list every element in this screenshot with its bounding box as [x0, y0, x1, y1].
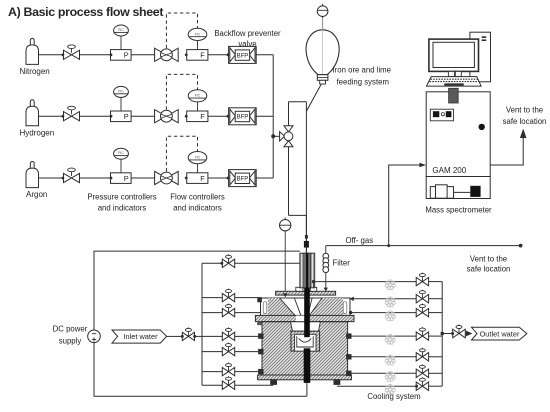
svg-text:Flow controllers: Flow controllers: [170, 193, 225, 202]
wire left cooling line 2 (left segment): [202, 297, 222, 299]
wire gas manifold vertical: [272, 55, 274, 178]
rotameter (grey) right line 4: [385, 334, 395, 344]
gauge PIC (gas line 3): [114, 148, 129, 173]
control valve (gas line 1): [155, 48, 179, 61]
svg-text:safe location: safe location: [503, 117, 547, 126]
pump controller (black box): [470, 186, 480, 197]
gauge PIC (gas line 2): [114, 86, 129, 111]
valve right cooling line 3: [416, 304, 428, 317]
top electrode rod (inside probe): [306, 253, 308, 289]
svg-text:Iron ore and lime: Iron ore and lime: [333, 66, 392, 75]
signal line dashed (gas line 1): [166, 13, 197, 48]
wire left cooling line 5 (left segment): [202, 351, 222, 353]
arrow into mass spectrometer: [419, 163, 426, 168]
label Flow controllers and indicators: [170, 193, 225, 213]
top electrode rod: [304, 288, 310, 337]
wire off-gas line: [326, 244, 523, 248]
gauge FIC (gas line 2): [188, 90, 207, 111]
flow controller F (gas line 3): [185, 173, 208, 184]
svg-text:Inlet water: Inlet water: [123, 332, 158, 341]
wire F to BFP: [208, 115, 229, 118]
svg-text:A) Basic process flow sheet: A) Basic process flow sheet: [8, 5, 163, 19]
wire cylinder to hand valve: [39, 115, 64, 117]
inlet water valve: [181, 327, 196, 340]
wire inlet banner to inlet valve: [167, 335, 183, 337]
wire right cooling line 1 to manifold: [429, 281, 443, 283]
wire right cooling line 7: [337, 385, 416, 387]
wire right cooling line 4: [351, 335, 416, 337]
wire outlet junction to valve: [442, 333, 452, 335]
rotameter (grey) right line 1: [385, 280, 395, 290]
pressure controller P (gas line 3): [111, 173, 132, 184]
balloon outlet collar: [317, 75, 328, 84]
svg-text:Mass spectrometer: Mass spectrometer: [425, 206, 492, 215]
label DC power supply: [53, 325, 88, 346]
wire left cooling line 3 (left segment): [202, 312, 222, 314]
node manifold junction: [271, 134, 275, 138]
cabinet knob: [479, 124, 485, 130]
wire cylinder to hand valve: [39, 54, 64, 56]
filter coil: [323, 246, 329, 289]
rotameter (grey) right line 5: [385, 355, 395, 365]
rotameter (grey) right line 2: [385, 297, 395, 307]
arrow vent up: [520, 129, 527, 138]
wire balloon to feed tube (diagonal): [306, 84, 321, 111]
svg-text:and indicators: and indicators: [98, 204, 147, 213]
signal line dashed (gas line 3): [166, 136, 197, 171]
wire left cooling line 7 (right segment): [235, 384, 274, 386]
cabinet control panel: [430, 109, 453, 121]
valve right cooling line 1: [416, 273, 428, 286]
svg-text:valve: valve: [238, 40, 256, 49]
backflow preventer valve BFP (gas line 1): [229, 46, 257, 63]
reactor right wall ports: [347, 334, 351, 376]
wire left cooling line 3 (right segment): [235, 311, 265, 314]
svg-text:Filter: Filter: [333, 258, 351, 267]
backflow preventer valve BFP (gas line 2): [229, 108, 257, 125]
label Pressure controllers and indicators: [87, 193, 156, 213]
wire gauge to reactor lid: [284, 231, 286, 293]
wire right cooling manifold vertical: [441, 282, 443, 387]
reactor lid: [276, 291, 336, 295]
hand valve (gas line 2): [62, 106, 80, 121]
upper section slots: [263, 302, 347, 314]
wire right cooling line 4 to manifold: [429, 335, 443, 337]
wire right cooling line 1: [312, 280, 416, 287]
svg-text:F: F: [200, 112, 205, 121]
arrow into outlet banner: [466, 331, 473, 337]
svg-text:Hydrogen: Hydrogen: [20, 128, 55, 137]
svg-text:FIC: FIC: [195, 94, 201, 98]
svg-text:Outlet water: Outlet water: [480, 329, 520, 338]
inlet water banner: [112, 330, 167, 343]
svg-text:Off- gas: Off- gas: [346, 236, 374, 245]
wire right cooling line 6: [351, 372, 416, 374]
backflow preventer valve BFP (gas line 3): [229, 170, 257, 187]
wire F to BFP: [208, 53, 229, 56]
wire DC- to bottom electrode: [94, 343, 307, 397]
DC power supply source: [88, 330, 101, 343]
valve left cooling line 7: [222, 376, 234, 389]
wire manifold to 3-way valve: [273, 135, 280, 137]
valve right cooling line 6: [416, 364, 428, 377]
cabinet lower compartment: [426, 177, 490, 199]
svg-text:DC power: DC power: [53, 325, 88, 334]
crucible: [291, 331, 320, 351]
wire outlet valve to banner: [465, 333, 470, 335]
computer tower: [470, 32, 491, 82]
valve right cooling line 7: [415, 377, 429, 390]
svg-text:PIC: PIC: [118, 28, 124, 32]
svg-text:BFP: BFP: [237, 53, 249, 59]
gas cylinder Argon: [26, 162, 39, 188]
wire hand valve to pressure controller: [80, 177, 113, 180]
fitting on feed tube (upper): [305, 235, 308, 239]
wire P to control valve: [131, 177, 155, 179]
label Backflow preventer valve: [214, 29, 281, 49]
reactor funnel cavity: [280, 298, 323, 315]
wire cylinder to hand valve: [39, 177, 64, 179]
valve left cooling line 4: [222, 327, 234, 340]
vacuum pump: [430, 185, 470, 198]
gauge on reactor lid: [280, 217, 291, 231]
svg-text:Cooling system: Cooling system: [367, 392, 420, 401]
svg-text:PIC: PIC: [118, 89, 124, 93]
pressure controller P (gas line 1): [111, 50, 132, 61]
vessel cavity: [291, 322, 321, 331]
3-way valve (gas feed): [280, 126, 293, 147]
wire right cooling line 3: [349, 311, 416, 314]
valve left cooling line 3: [222, 304, 234, 317]
wire P to control valve: [131, 54, 155, 56]
pressure controller P (gas line 2): [111, 111, 132, 122]
wire P to control valve: [131, 115, 155, 117]
wire left cooling manifold vertical: [201, 263, 203, 385]
gas cylinder Nitrogen: [26, 38, 39, 64]
svg-text:Vent to the: Vent to the: [506, 106, 543, 115]
svg-text:supply: supply: [59, 337, 82, 346]
node outlet junction: [441, 332, 444, 335]
reactor flange: [255, 315, 354, 321]
svg-text:GAM 200: GAM 200: [432, 166, 466, 175]
svg-text:Vent to the: Vent to the: [470, 255, 507, 264]
svg-text:P: P: [124, 174, 129, 183]
wire left cooling line 6 (right segment): [235, 371, 259, 373]
wire right cooling line 7 to manifold: [429, 385, 443, 387]
signal line dashed (gas line 2): [166, 74, 197, 109]
wire bottom electrode to DC: [306, 383, 308, 396]
valve left cooling line 2: [222, 289, 234, 302]
arrow gauge stem into lid: [283, 293, 288, 297]
wire right cooling line 3 to manifold: [429, 312, 443, 314]
wire MS vent to safe location: [490, 137, 523, 165]
wire off-gas to mass spectrometer: [389, 165, 420, 246]
wire right cooling line 2: [349, 297, 416, 301]
wire left cooling line 4 (right segment): [235, 335, 259, 337]
mass spectrometer cabinet: [426, 92, 490, 177]
wire BFP to manifold: [256, 115, 273, 117]
hand valve (gas line 1): [62, 45, 80, 60]
wire left cooling line 7 (left segment): [202, 384, 222, 386]
reactor upper section: [261, 298, 351, 315]
flow controller F (gas line 1): [185, 50, 208, 61]
wire left cooling line 4 (left segment): [202, 335, 222, 337]
valve left cooling line 1: [220, 254, 234, 267]
reactor bottom plate bolts: [271, 380, 340, 385]
svg-text:P: P: [124, 51, 129, 60]
svg-text:BFP: BFP: [237, 115, 249, 121]
svg-text:BFP: BFP: [237, 177, 249, 183]
probe collar stubs: [296, 287, 317, 291]
outlet water valve: [451, 325, 465, 338]
probe cooling jacket: [300, 253, 315, 288]
outlet water banner: [472, 327, 527, 340]
svg-text:Backflow preventer: Backflow preventer: [214, 29, 281, 38]
wire hand valve to pressure controller: [80, 115, 113, 118]
wire feed tube down: [305, 215, 307, 253]
svg-text:FIC: FIC: [195, 156, 201, 160]
wire inlet valve to left manifold: [195, 335, 202, 337]
svg-text:F: F: [200, 174, 205, 183]
svg-text:Nitrogen: Nitrogen: [20, 67, 50, 76]
wire left cooling line 2 (right segment): [235, 297, 262, 299]
label vent to the safe location (upper): [503, 106, 547, 127]
label vent to the safe location (lower): [467, 255, 511, 274]
computer monitor: [429, 39, 479, 71]
wire left cooling line 6 (left segment): [202, 371, 222, 373]
wire F to BFP: [208, 177, 229, 180]
wire left cooling line 5 (right segment): [235, 351, 259, 353]
bottom electrode rod: [304, 348, 311, 383]
wire hand valve to pressure controller: [80, 53, 113, 56]
gas cylinder Hydrogen: [26, 100, 39, 126]
wire right cooling line 2 to manifold: [429, 298, 443, 300]
wire DC+ to top electrode: [94, 251, 300, 330]
svg-text:P: P: [124, 112, 129, 121]
wire gauge to balloon: [322, 17, 324, 30]
gauge on feeding balloon: [317, 4, 328, 17]
label iron ore and lime feeding system: [333, 66, 392, 87]
svg-text:feeding system: feeding system: [337, 78, 389, 87]
wire BFP to manifold: [256, 177, 273, 179]
svg-text:Pressure controllers: Pressure controllers: [87, 193, 156, 202]
valve right cooling line 5: [416, 348, 428, 361]
valve right cooling line 2: [416, 290, 428, 303]
fitting on feed tube (lower): [304, 241, 309, 248]
svg-text:safe location: safe location: [467, 265, 511, 274]
gauge FIC (gas line 3): [188, 152, 207, 173]
rotameter (grey) right line 7: [385, 384, 395, 394]
feed tube rectangle: [289, 102, 307, 216]
monitor stand: [448, 71, 461, 76]
hand valve (gas line 3): [62, 168, 80, 183]
flow controller F (gas line 2): [185, 111, 208, 122]
wire right cooling line 5: [351, 356, 416, 358]
feeding balloon (iron ore and lime feeding system): [306, 18, 339, 75]
rotameter (grey) right line 3: [385, 311, 395, 321]
valve left cooling line 5: [222, 343, 234, 356]
svg-text:Argon: Argon: [26, 190, 47, 199]
wire left cooling line 1 (left segment): [202, 262, 222, 264]
flange funnel gap: [296, 316, 308, 322]
reactor vessel body: [262, 322, 348, 375]
reactor bottom plate: [258, 375, 352, 380]
svg-text:FIC: FIC: [195, 32, 201, 36]
reactor flange bolts: [257, 322, 341, 326]
svg-text:and indicators: and indicators: [173, 204, 222, 213]
valve right cooling line 4: [416, 327, 428, 340]
reactor left wall ports: [259, 334, 263, 374]
svg-text:F: F: [200, 51, 205, 60]
svg-text:PIC: PIC: [118, 151, 124, 155]
node upper section left port: [257, 298, 262, 303]
wire BFP to manifold: [256, 54, 273, 56]
rotameter (grey) right line 6: [385, 372, 395, 382]
control valve (gas line 3): [155, 171, 179, 184]
gauge PIC (gas line 1): [114, 25, 129, 50]
wire right cooling line 5 to manifold: [429, 356, 443, 358]
wire right cooling line 6 to manifold: [429, 372, 443, 374]
gauge FIC (gas line 1): [188, 28, 207, 49]
arrow filter line into lid: [324, 288, 328, 292]
valve left cooling line 6: [222, 363, 234, 376]
keyboard connector: [449, 88, 459, 103]
wire left cooling line 1 (right segment): [235, 262, 300, 264]
keyboard: [427, 77, 482, 87]
control valve (gas line 2): [155, 110, 179, 123]
